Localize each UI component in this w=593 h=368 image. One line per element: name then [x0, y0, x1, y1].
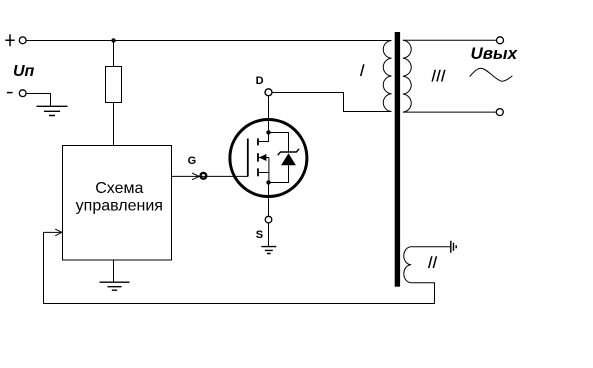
svg-text:Схема: Схема: [95, 180, 143, 197]
svg-text:D: D: [256, 75, 264, 87]
svg-text:управления: управления: [76, 197, 163, 214]
svg-text:Uп: Uп: [13, 63, 35, 80]
svg-text:III: III: [431, 66, 447, 85]
svg-text:G: G: [188, 155, 197, 167]
svg-text:II: II: [427, 253, 438, 272]
svg-text:S: S: [256, 229, 263, 241]
svg-text:Uвых: Uвых: [471, 44, 519, 63]
